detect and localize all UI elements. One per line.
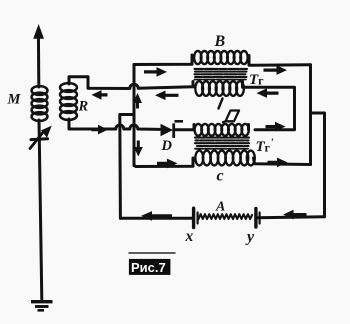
svg-text:x: x [185, 228, 194, 245]
svg-text:Тг': Тг' [256, 135, 275, 155]
svg-text:у: у [245, 229, 255, 246]
svg-text:с: с [217, 168, 224, 185]
svg-text:R: R [78, 99, 89, 115]
svg-text:D: D [161, 138, 173, 154]
svg-text:Рис.7: Рис.7 [131, 260, 166, 275]
svg-text:Тг: Тг [249, 72, 264, 88]
svg-text:B: B [214, 33, 226, 50]
svg-text:А: А [215, 200, 225, 215]
svg-text:M: M [7, 92, 22, 108]
